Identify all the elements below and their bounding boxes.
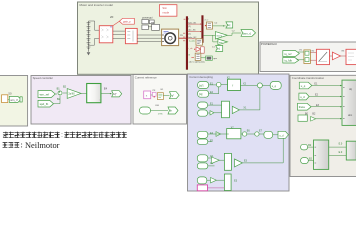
svg-text:(2): (2) <box>188 26 191 28</box>
svg-text:[w]: [w] <box>227 24 230 27</box>
svg-text:Speed controller: Speed controller <box>33 76 53 80</box>
panel P4: voltage decoupling window <box>188 74 290 191</box>
P2 smc block red <box>316 49 329 64</box>
P6 dq2abc block <box>342 80 356 125</box>
P0 constant block orange <box>2 95 8 103</box>
P5 goto tag row1 <box>170 92 180 99</box>
P4 row5 block <box>224 174 231 191</box>
caption colon <box>21 143 22 144</box>
svg-text:[iq*]: [iq*] <box>199 84 204 87</box>
inverter block <box>99 26 113 43</box>
panel P1: main motor drive model window <box>78 2 259 74</box>
svg-text:rpm: rpm <box>219 42 223 44</box>
P2 inport iq fdb <box>283 58 299 64</box>
P2 gain triangle red <box>332 52 340 60</box>
P4 row1 subsystem <box>227 77 241 91</box>
P4 row4 gain <box>235 159 243 167</box>
red measurement wires <box>188 24 202 39</box>
wire to goto wm <box>213 25 226 27</box>
panel P5: reference window <box>133 75 187 125</box>
gain triangle rad2rpm <box>215 32 227 39</box>
P3 wires <box>54 93 112 104</box>
svg-text:[n]: [n] <box>217 49 220 51</box>
P5 orange block <box>157 93 163 100</box>
svg-text:gate_p: gate_p <box>123 20 131 23</box>
P4 row1 goto <box>270 82 281 90</box>
P4 row5 from tag <box>197 177 207 184</box>
P3 gain 2*pi/60 <box>63 85 81 98</box>
svg-text:Motor and inverter model: Motor and inverter model <box>80 3 114 7</box>
P4 row3 mini gain <box>216 132 221 137</box>
P4 row2 from tags <box>198 102 208 108</box>
P2 sum subsystem orange <box>304 50 311 64</box>
red gain triangle small <box>188 47 201 52</box>
P4 row4 mini gain <box>212 157 220 163</box>
P6 wires to dq2abc <box>309 86 342 119</box>
svg-text:2p/60: 2p/60 <box>68 93 75 96</box>
measurement labels between busbars <box>188 18 197 39</box>
busbar 2 <box>201 15 203 43</box>
wire bar2 to triangle <box>203 34 215 36</box>
P4 row4 wires <box>208 138 283 166</box>
branch wire to triangle2 <box>213 35 218 42</box>
DC source chain <box>87 21 91 52</box>
wire triangle to wm_ref tag <box>227 33 241 35</box>
ground symbol <box>87 52 91 55</box>
P4 row3 from tags <box>197 131 208 138</box>
P4 row1 sum junction <box>216 82 221 87</box>
svg-text:Coordinate transformation: Coordinate transformation <box>292 76 325 80</box>
svg-text:u_d: u_d <box>300 95 305 99</box>
busbar 1 <box>186 16 188 69</box>
P4 row3 subsystem <box>227 126 241 138</box>
svg-text:u_q: u_q <box>272 85 277 88</box>
P4 row4 from tags <box>197 155 208 162</box>
panel P2: current controller strip window <box>260 42 356 72</box>
red annotation box <box>159 5 177 17</box>
svg-text:50: 50 <box>8 91 12 95</box>
svg-text:rpm: rpm <box>213 57 217 60</box>
P4 row1 from tag iq_ref <box>198 82 209 89</box>
svg-text:mode: mode <box>162 10 169 14</box>
P4 row3 wires <box>208 134 278 142</box>
svg-text:is_abc: is_abc <box>189 40 195 42</box>
P6 inport theta <box>298 103 312 110</box>
P6 constant + gain <box>298 115 307 121</box>
panel P6: coordinate transformation window <box>290 75 356 176</box>
speed sensor block (orange) <box>205 19 213 30</box>
scope block dark <box>206 56 218 60</box>
P2 wires <box>297 52 304 60</box>
P4 row3 goto tags <box>264 131 273 138</box>
P4 row4 integrator <box>224 153 231 170</box>
panel P3: speed controller window <box>31 76 131 125</box>
svg-text:iq_ref: iq_ref <box>284 52 291 56</box>
svg-text:1/TS: 1/TS <box>158 114 163 116</box>
powergui block cluster <box>142 15 160 30</box>
svg-text:spd_fb: spd_fb <box>40 102 49 106</box>
P6 lower wires <box>308 147 347 160</box>
red wire motor to busbar <box>179 37 186 39</box>
phase labels left of busbar1 <box>183 19 185 41</box>
P4 row5 orange mini <box>211 178 217 183</box>
P4 row2 integrator <box>222 101 230 118</box>
P5 from tag row2 <box>140 107 151 114</box>
from tag [wm_ref] <box>241 30 256 37</box>
P6 inport u_q <box>299 82 312 89</box>
P4 row1 from tag iq <box>198 90 209 97</box>
PMSM motor block <box>162 29 179 45</box>
callout arrow <box>113 21 120 26</box>
svg-text:u_q: u_q <box>301 85 306 88</box>
svg-text:Neilmotor: Neilmotor <box>25 141 60 150</box>
P5 pink mini block <box>152 92 156 97</box>
wire: source to inverter <box>89 21 100 45</box>
gate pulses hexagon callout <box>119 18 134 24</box>
P4 row5 wires <box>207 179 225 181</box>
svg-text:Current reference: Current reference <box>135 75 157 79</box>
red mark <box>191 57 194 59</box>
svg-text:[iq]: [iq] <box>199 93 203 96</box>
P2 right red block <box>346 49 356 64</box>
svg-text:POWERGUI: POWERGUI <box>261 42 277 46</box>
tan block 2 <box>188 53 201 60</box>
P0 wire <box>8 98 10 100</box>
svg-text:60/2p: 60/2p <box>217 35 223 37</box>
P4 row2 wires <box>208 88 260 113</box>
svg-text:[wm_r]: [wm_r] <box>243 31 251 35</box>
P5 goto tag row2 <box>168 107 178 114</box>
P3 outport iq_ref <box>110 91 122 97</box>
P6 right output block <box>346 141 356 160</box>
P4 row5 pink constant <box>197 185 207 191</box>
mini block red <box>201 47 205 53</box>
P4 row2 gain <box>232 106 239 113</box>
P0 outport <box>9 96 21 102</box>
wire tan2 to scope <box>201 57 206 59</box>
P4 row3 sums <box>242 132 246 136</box>
wires inverter to measurement <box>113 31 126 38</box>
goto tag [w_m] <box>226 22 233 28</box>
P3 inport spd_fdb <box>38 100 54 107</box>
svg-text:theta: theta <box>299 105 305 109</box>
P3 inport wm_ref <box>38 91 55 98</box>
svg-text:iq_fdb: iq_fdb <box>284 59 292 63</box>
caption line 2: Xianyu ID glyphs <box>3 142 20 147</box>
wires measurement to motor <box>137 35 161 41</box>
svg-text:(2): (2) <box>188 33 191 35</box>
svg-text:Current decoupling: Current decoupling <box>189 75 213 79</box>
svg-text:iq*: iq* <box>171 95 174 97</box>
svg-text:abc: abc <box>348 113 353 117</box>
caption line 1: Chinese title drawn as strokes <box>3 132 126 138</box>
P6 lower from tag b <box>301 157 313 163</box>
P2 inport iq_ref <box>283 51 300 57</box>
gain triangle 2 <box>218 39 228 45</box>
P4 row2 mini gain <box>210 111 214 115</box>
svg-text:wm_rf: wm_rf <box>10 98 17 102</box>
svg-text:powergui: powergui <box>142 15 153 19</box>
goto tag [rpm] <box>216 46 223 52</box>
svg-text:abc to alpha-beta: abc to alpha-beta <box>189 61 206 64</box>
measurement cluster: scope subsystem tan <box>189 39 203 45</box>
P5 wires row1 <box>151 94 170 97</box>
svg-text:wm_ref: wm_ref <box>40 92 50 96</box>
svg-text:iq*: iq* <box>114 93 117 96</box>
P6 lower from tag a <box>301 144 312 150</box>
P6 inport u_d <box>299 93 309 100</box>
P5 wire row2 <box>151 110 169 112</box>
P5 pink block <box>144 91 151 99</box>
P3 ST-SMC subsystem <box>87 84 101 103</box>
panel P0: left cropped window <box>0 76 28 127</box>
P0 green edge block <box>20 97 22 102</box>
svg-text:u_d: u_d <box>279 134 284 137</box>
P6 svpwm block <box>314 140 329 169</box>
three-phase measurement block <box>125 28 137 43</box>
P4 row1 wires <box>209 85 271 94</box>
svg-text:2F: 2F <box>110 15 114 19</box>
P4 row1 sum <box>257 83 262 88</box>
svg-text:Sim: Sim <box>162 6 167 10</box>
P3 sum junction <box>57 88 62 101</box>
